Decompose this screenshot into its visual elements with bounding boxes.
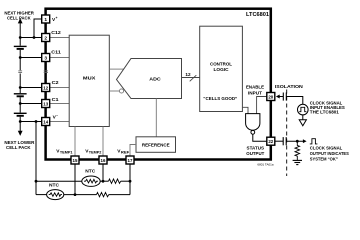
svg-text:C1: C1 [52,97,60,102]
svg-text:3: 3 [44,55,47,61]
wire pin2 C12 [20,37,42,39]
junction VREF branch [129,180,132,183]
pin 2 [42,34,50,42]
pin16 column [102,164,104,181]
battery BT2 [14,93,27,95]
arrow to next lower cell pack [18,131,23,136]
pin 16 [99,156,107,164]
wire ADC-REFERENCE [155,99,157,137]
svg-text:OUTPUT INDICATES: OUTPUT INDICATES [310,151,349,156]
svg-text:CLOCK SIGNAL: CLOCK SIGNAL [310,145,343,150]
svg-text:THE LTC6801: THE LTC6801 [310,109,340,114]
node V- tap [19,120,22,123]
arrow to next higher cell pack [19,23,21,38]
AND gate U1 (pointing down) [246,114,260,131]
break marks on stack (omitted cells) [18,71,22,73]
wire MUX-ADC upper [109,68,124,70]
wire MUX-ADC lower with bubble [109,90,119,92]
capacitor C1 (enable coupling) [282,93,284,101]
svg-text:+: + [56,16,58,20]
node C12 tap [19,36,22,39]
svg-text:TEMP2: TEMP2 [89,151,102,155]
wire gate output to pin22 [253,134,267,141]
wire [36,180,82,182]
svg-text:12: 12 [185,72,191,77]
REFERENCE block [136,137,176,153]
pin 3 [42,54,50,62]
wire pin13 C1 [20,103,42,105]
node status output [296,140,299,143]
pin 12 [42,84,50,92]
bus slash [190,75,197,81]
svg-text:CONTROL: CONTROL [210,62,232,67]
svg-text:“CELLS GOOD”: “CELLS GOOD” [203,96,237,101]
ground [293,159,302,161]
CONTROL LOGIC block [200,26,243,111]
svg-text:6801 TA01a: 6801 TA01a [257,163,273,167]
svg-text:ISOLATION: ISOLATION [275,84,304,89]
svg-text:NTC: NTC [85,169,96,174]
junction V- / NTC1 branch [35,180,38,183]
svg-text:C2: C2 [52,80,60,85]
wire [100,180,108,182]
pin 14 [42,118,50,126]
svg-text:–: – [56,114,58,118]
capacitor C2 (status coupling) [282,137,284,145]
svg-text:SYSTEM “OK”: SYSTEM “OK” [310,157,338,162]
clock source circle [298,104,309,115]
wire MUX-VTEMP1 [74,127,76,156]
MUX block [69,35,109,126]
battery BT3 [14,112,27,114]
wire pin12 C2 [20,87,42,89]
wire pin20-gate right input [257,97,267,114]
wire CONTROL-gate left input [242,107,248,113]
node VTEMP1 [74,193,77,196]
arrow out [303,139,307,143]
svg-text:12: 12 [43,85,48,90]
wire [109,194,130,196]
wire [19,97,21,112]
svg-text:NTC: NTC [49,183,60,188]
svg-text:14: 14 [43,119,48,124]
svg-text:REF: REF [121,151,129,155]
junction V+/C12 jog [33,36,36,39]
svg-text:15: 15 [73,158,78,163]
wire pin12-MUX [50,87,69,89]
svg-text:2: 2 [44,35,47,41]
wire pin22 to cap [275,140,283,142]
pin 1 [42,15,50,23]
pin 13 [42,100,50,108]
wire [36,194,47,196]
svg-text:C11: C11 [51,50,61,55]
break marks on IC left edge (omitted pins) [44,71,48,73]
svg-text:STATUS: STATUS [247,145,265,150]
wire [121,180,130,182]
wire [64,194,97,196]
resistor R3 [97,192,109,196]
pin 15 [71,156,79,164]
wire pin13-MUX [50,103,69,105]
pin 22 [267,137,275,145]
node VTEMP2 [102,180,105,183]
svg-text:OUTPUT: OUTPUT [246,151,264,156]
thermistor NTC1 [82,176,100,186]
wire pin14-MUX [50,121,69,123]
wire pin17-REFERENCE [130,145,136,156]
svg-text:ENABLE: ENABLE [246,84,264,89]
bus ADC-CONTROL LOGIC [182,77,200,79]
IC boundary LTC6801 [46,9,271,160]
isolation barrier dashed line [286,90,288,177]
svg-text:1: 1 [44,17,47,23]
wire [19,74,21,94]
wire MUX-VTEMP2 [102,127,104,156]
svg-text:INPUT: INPUT [248,90,262,95]
svg-text:LOGIC: LOGIC [214,67,230,72]
cell stack line [19,38,21,46]
resistor R2 [109,179,121,183]
wire pin3-MUX [50,57,69,59]
clock glyph [310,139,318,144]
svg-text:22: 22 [268,139,273,144]
battery BT1 [14,45,27,47]
node C2 tap [19,86,22,89]
svg-text:REFERENCE: REFERENCE [142,142,170,147]
wire [302,115,304,120]
svg-text:CELL PACK: CELL PACK [6,145,31,151]
arrow into pin20 [276,95,280,99]
wire [19,50,21,70]
wire pin3 C11 [20,57,42,59]
wire V+ to C12 node [34,19,42,38]
svg-text:MUX: MUX [83,76,96,82]
node C11 tap [19,56,22,59]
wire cap to clock source [286,97,303,105]
svg-text:17: 17 [128,158,133,163]
ground triangle [299,120,306,126]
pin 20 [267,93,275,101]
svg-text:16: 16 [101,158,106,163]
thermistor NTC2 [47,190,64,200]
wire [19,117,21,132]
wire pin14 V- [20,121,42,123]
node C1 tap [19,102,22,105]
ADC block [117,59,182,99]
svg-text:13: 13 [43,101,48,106]
svg-text:CELL PACK: CELL PACK [7,15,31,21]
svg-text:ADC: ADC [149,77,161,83]
pin17 column [129,164,131,194]
svg-text:LTC6801: LTC6801 [246,12,269,18]
pin 17 [126,156,134,164]
pin15 column [74,164,76,194]
wire pin2-MUX [50,37,69,39]
wire cap to node [286,140,303,142]
junction V- drop [35,120,38,123]
V- drop line to thermistor network [35,122,37,195]
pull-down resistor R1 [295,141,300,160]
svg-text:20: 20 [268,94,273,99]
svg-text:TEMP1: TEMP1 [60,151,73,155]
svg-text:C12: C12 [51,30,61,35]
